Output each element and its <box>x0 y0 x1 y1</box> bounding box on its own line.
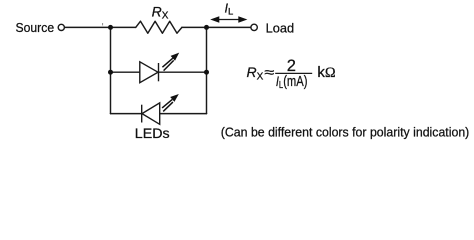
svg-text:Source: Source <box>16 20 55 35</box>
svg-text:2: 2 <box>287 57 296 75</box>
svg-text:≈: ≈ <box>264 64 274 80</box>
svg-text:kΩ: kΩ <box>317 64 336 81</box>
svg-text:LEDs: LEDs <box>135 126 170 141</box>
svg-text:(Can be different colors for p: (Can be different colors for polarity in… <box>221 124 469 139</box>
svg-text:Load: Load <box>266 20 295 35</box>
